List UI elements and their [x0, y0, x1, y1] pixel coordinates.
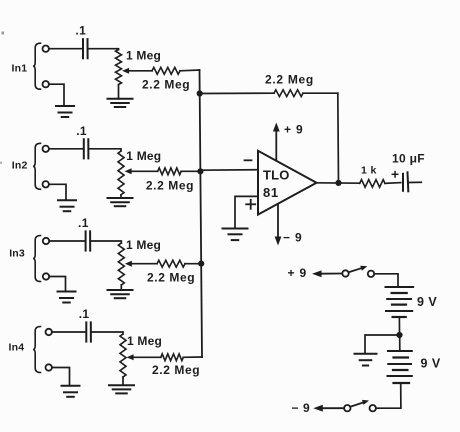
ground battery: [355, 354, 377, 366]
svg-text:.1: .1: [79, 307, 90, 321]
battery B2 9 V: [388, 338, 441, 383]
jack J1: [43, 46, 49, 88]
potentiometer R4 1 Meg: [120, 334, 162, 377]
capacitor C2 .1: [76, 124, 88, 159]
wire summing bus: [200, 70, 203, 357]
svg-text:1 k: 1 k: [361, 165, 377, 177]
svg-text:1 Meg: 1 Meg: [126, 238, 161, 252]
svg-text:81: 81: [263, 185, 279, 200]
potentiometer R3 1 Meg: [118, 238, 161, 285]
node In4: [9, 342, 25, 354]
resistor R3b 2.2 Meg: [147, 260, 201, 284]
svg-text:.1: .1: [76, 124, 87, 138]
svg-text:2.2 Meg: 2.2 Meg: [142, 78, 190, 92]
wire: [49, 148, 84, 150]
node output junction: [335, 180, 341, 186]
power +9 battery tap: [288, 266, 343, 280]
ground: [108, 285, 133, 298]
capacitor C5 10 uF: [392, 152, 425, 192]
wire: [88, 149, 121, 151]
jack J4: [46, 329, 52, 371]
switch S1: [342, 266, 374, 277]
wire: [52, 368, 70, 386]
svg-text:.1: .1: [78, 216, 89, 230]
power -9 supply: [275, 204, 303, 246]
power +9 supply: [273, 123, 304, 161]
switch S2: [344, 400, 376, 412]
svg-text:2.2 Meg: 2.2 Meg: [147, 271, 195, 285]
wire: [374, 274, 398, 287]
svg-text:+ 9: + 9: [284, 123, 303, 137]
svg-text:2.2 Meg: 2.2 Meg: [146, 179, 194, 193]
potentiometer R2 1 Meg: [118, 149, 161, 195]
node In2: [12, 160, 28, 172]
node input junction: [197, 168, 203, 174]
svg-text:1 Meg: 1 Meg: [126, 49, 161, 63]
wire: [49, 84, 64, 106]
wire output stub: [410, 181, 422, 183]
wire: [49, 48, 83, 50]
wire non-inverting input: [235, 196, 258, 227]
svg-text:1 Meg: 1 Meg: [126, 149, 161, 163]
wire: [376, 383, 401, 408]
svg-text:9 V: 9 V: [417, 295, 437, 309]
wire: [88, 48, 119, 51]
node In1: [12, 63, 28, 75]
wire: [49, 240, 85, 242]
wire inverting input: [200, 169, 258, 172]
potentiometer R1 1 Meg: [116, 49, 162, 85]
wire ground branch: [365, 335, 397, 353]
battery B1 9 V: [386, 287, 438, 317]
svg-text:TLO: TLO: [263, 167, 290, 182]
node In3 junction: [198, 261, 204, 267]
wire output: [317, 182, 360, 184]
ground: [58, 200, 76, 211]
svg-text:.1: .1: [75, 24, 86, 38]
resistor R4b 2.2 Meg: [152, 354, 202, 377]
ground op-amp: [223, 229, 248, 241]
svg-text:2.2 Meg: 2.2 Meg: [265, 73, 314, 87]
ground: [62, 386, 80, 397]
wire feedback drop: [337, 93, 340, 183]
svg-text:In4: In4: [9, 342, 25, 354]
wire: [49, 277, 65, 292]
node battery midpoint: [396, 332, 402, 338]
power -9 battery tap: [292, 401, 345, 415]
wire: [52, 331, 86, 333]
node feedback junction: [197, 90, 203, 96]
capacitor C3 .1: [78, 216, 90, 251]
wire: [91, 332, 123, 334]
svg-text:9 V: 9 V: [421, 357, 441, 371]
resistor RF 2.2 Meg: [200, 73, 338, 97]
ground: [108, 195, 133, 206]
ground: [56, 106, 74, 117]
svg-text:In3: In3: [9, 248, 25, 260]
node In3: [9, 248, 25, 260]
svg-text:− 9: − 9: [283, 231, 302, 245]
op-amp U1 TL081: [245, 151, 317, 215]
wire: [90, 241, 121, 243]
ground: [58, 292, 76, 303]
svg-text:2.2 Meg: 2.2 Meg: [152, 363, 200, 377]
wire: [49, 184, 66, 200]
capacitor C1 .1: [75, 24, 87, 59]
wire: [398, 317, 400, 332]
svg-text:10 μF: 10 μF: [392, 152, 425, 166]
svg-text:+ 9: + 9: [288, 266, 307, 280]
svg-text:− 9: − 9: [292, 401, 311, 415]
svg-text:In1: In1: [12, 63, 28, 75]
ground: [109, 377, 134, 393]
jack J2: [43, 146, 49, 188]
svg-text:In2: In2: [12, 160, 28, 172]
resistor R1b 2.2 Meg: [142, 67, 200, 91]
svg-text:1 Meg: 1 Meg: [127, 334, 162, 348]
jack J3: [43, 238, 49, 280]
wire: [0, 32, 4, 165]
ground: [108, 85, 133, 108]
resistor R5 1 k: [360, 165, 401, 188]
resistor R2b 2.2 Meg: [146, 168, 201, 193]
capacitor C4 .1: [79, 307, 91, 342]
